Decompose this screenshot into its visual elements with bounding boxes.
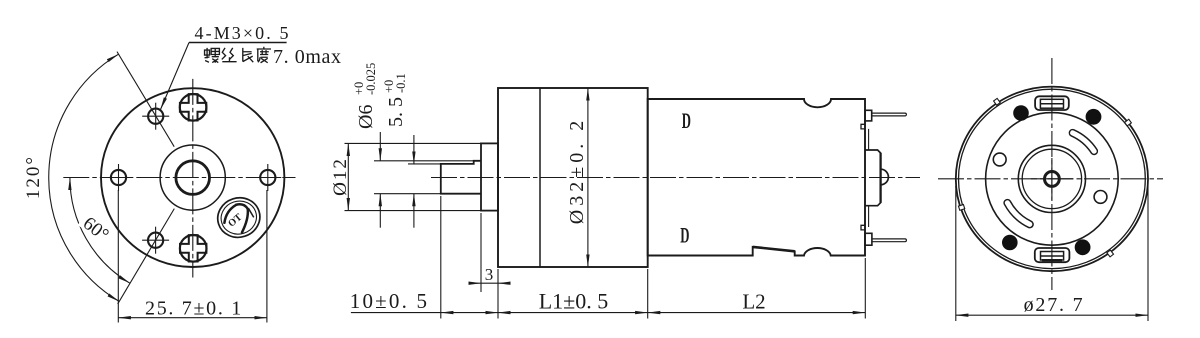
terminal top	[865, 110, 906, 121]
svg-text:ø27. 7: ø27. 7	[1024, 294, 1085, 316]
radial line through lower M3 hole	[118, 209, 175, 304]
rear shaft end	[1045, 172, 1060, 187]
rivet dot top-right	[1086, 109, 1102, 125]
dimension diameter 12	[347, 143, 349, 210]
svg-text:Ø32±0. 2: Ø32±0. 2	[566, 117, 588, 224]
label 5.5 with tolerance	[382, 73, 408, 127]
60 degree dimension arc	[70, 178, 130, 284]
center boss circle	[160, 145, 225, 210]
dimension 5.5	[413, 135, 415, 164]
endbell lip bottom	[868, 206, 870, 227]
side view centerline	[431, 177, 920, 179]
svg-text:4-M3×0. 5: 4-M3×0. 5	[195, 23, 291, 43]
motor can rolled edge circle	[959, 89, 1146, 268]
120 degree dimension arc	[49, 54, 119, 301]
M3 mounting hole upper	[142, 103, 169, 130]
motor can outline	[648, 99, 865, 256]
phillips screw bottom	[180, 235, 207, 262]
small hole left	[993, 153, 1006, 166]
can crimp tab left-bottom	[958, 205, 964, 211]
rear boss outer circle	[1018, 145, 1085, 212]
svg-text:L2: L2	[742, 290, 765, 314]
stamped tab thick edge	[753, 247, 795, 251]
M3 mounting hole lower	[142, 227, 169, 254]
gearbox plate line	[539, 88, 541, 267]
shaft extension lines	[374, 160, 474, 162]
dimension 10	[351, 312, 441, 314]
vent slot lower-left	[1004, 200, 1033, 228]
endbell circle	[986, 113, 1119, 246]
rear center crosshair	[1031, 178, 1073, 180]
svg-text:D: D	[682, 108, 691, 133]
output shaft side profile	[441, 161, 481, 194]
brush housing right edge thick	[879, 153, 881, 203]
brush housing	[865, 150, 881, 206]
bottom extension lines middle view	[440, 196, 442, 319]
phillips screw top	[180, 94, 207, 121]
svg-text:L1±0. 5: L1±0. 5	[539, 289, 609, 314]
svg-text:7. 0max: 7. 0max	[273, 46, 342, 68]
rear view vertical centerline	[1051, 58, 1053, 290]
dimension diameter 27.7 line	[956, 314, 1148, 316]
output shaft circle	[176, 161, 210, 195]
bearing boss	[481, 143, 498, 210]
leader line for 4-M3 callout	[189, 42, 287, 44]
terminal bottom	[865, 233, 906, 245]
crimp notch bottom	[861, 225, 865, 230]
rivet dot top-left	[1013, 105, 1029, 121]
dimension 25.7 extension lines	[117, 190, 119, 323]
endbell lip top	[868, 129, 870, 150]
svg-text:3: 3	[485, 265, 494, 284]
dimension diameter 6	[379, 132, 381, 161]
radial line through upper M3 hole	[117, 52, 174, 147]
label diameter 6 with tolerance	[352, 63, 378, 129]
can crimp tab left-top	[994, 98, 1001, 105]
rivet dot bottom-left	[1002, 235, 1018, 251]
front view horizontal centerline	[63, 177, 295, 179]
dimension L2	[648, 312, 866, 314]
can crimp tab right-top	[1125, 119, 1132, 126]
front view vertical centerline	[192, 79, 194, 278]
dimension diameter 32	[587, 88, 589, 267]
logo badge	[213, 192, 265, 242]
vent slot upper-right	[1069, 130, 1097, 155]
60 degree label background	[78, 211, 115, 245]
crimp notch top	[861, 124, 865, 129]
motor can outer circle rear	[956, 87, 1148, 272]
rivet dot bottom-right	[1075, 239, 1091, 255]
svg-text:5. 5: 5. 5	[385, 97, 407, 127]
svg-text:25. 7±0. 1: 25. 7±0. 1	[145, 298, 243, 320]
svg-text:D: D	[680, 222, 689, 247]
gearbox body rectangle	[498, 88, 648, 267]
dimension 3	[470, 282, 481, 284]
gearbox front face outer circle	[101, 88, 284, 267]
brush cap top	[1035, 96, 1069, 110]
boss extension lines	[345, 142, 482, 144]
dimension L1	[498, 312, 648, 314]
svg-text:-0.1: -0.1	[394, 73, 408, 93]
svg-text:Ø6: Ø6	[355, 105, 377, 129]
M3 mounting hole left	[105, 164, 132, 191]
rear view horizontal centerline	[938, 178, 1163, 180]
brush cap bottom	[1035, 248, 1070, 262]
small hole right	[1094, 191, 1107, 204]
M3 mounting hole right	[254, 164, 281, 191]
dimension 25.7 line	[118, 317, 267, 319]
svg-text:-0.025: -0.025	[364, 63, 378, 95]
svg-text:10±0. 5: 10±0. 5	[350, 289, 429, 313]
svg-text:120°: 120°	[23, 155, 44, 199]
svg-text:Ø12: Ø12	[330, 157, 351, 196]
can crimp tab right-bottom	[1107, 250, 1114, 257]
label screw length 7.0max (Chinese)	[205, 47, 271, 63]
bearing dome	[881, 169, 889, 185]
dimension diameter 27.7 extension lines	[955, 186, 957, 321]
rear boss inner circle	[1022, 149, 1081, 208]
